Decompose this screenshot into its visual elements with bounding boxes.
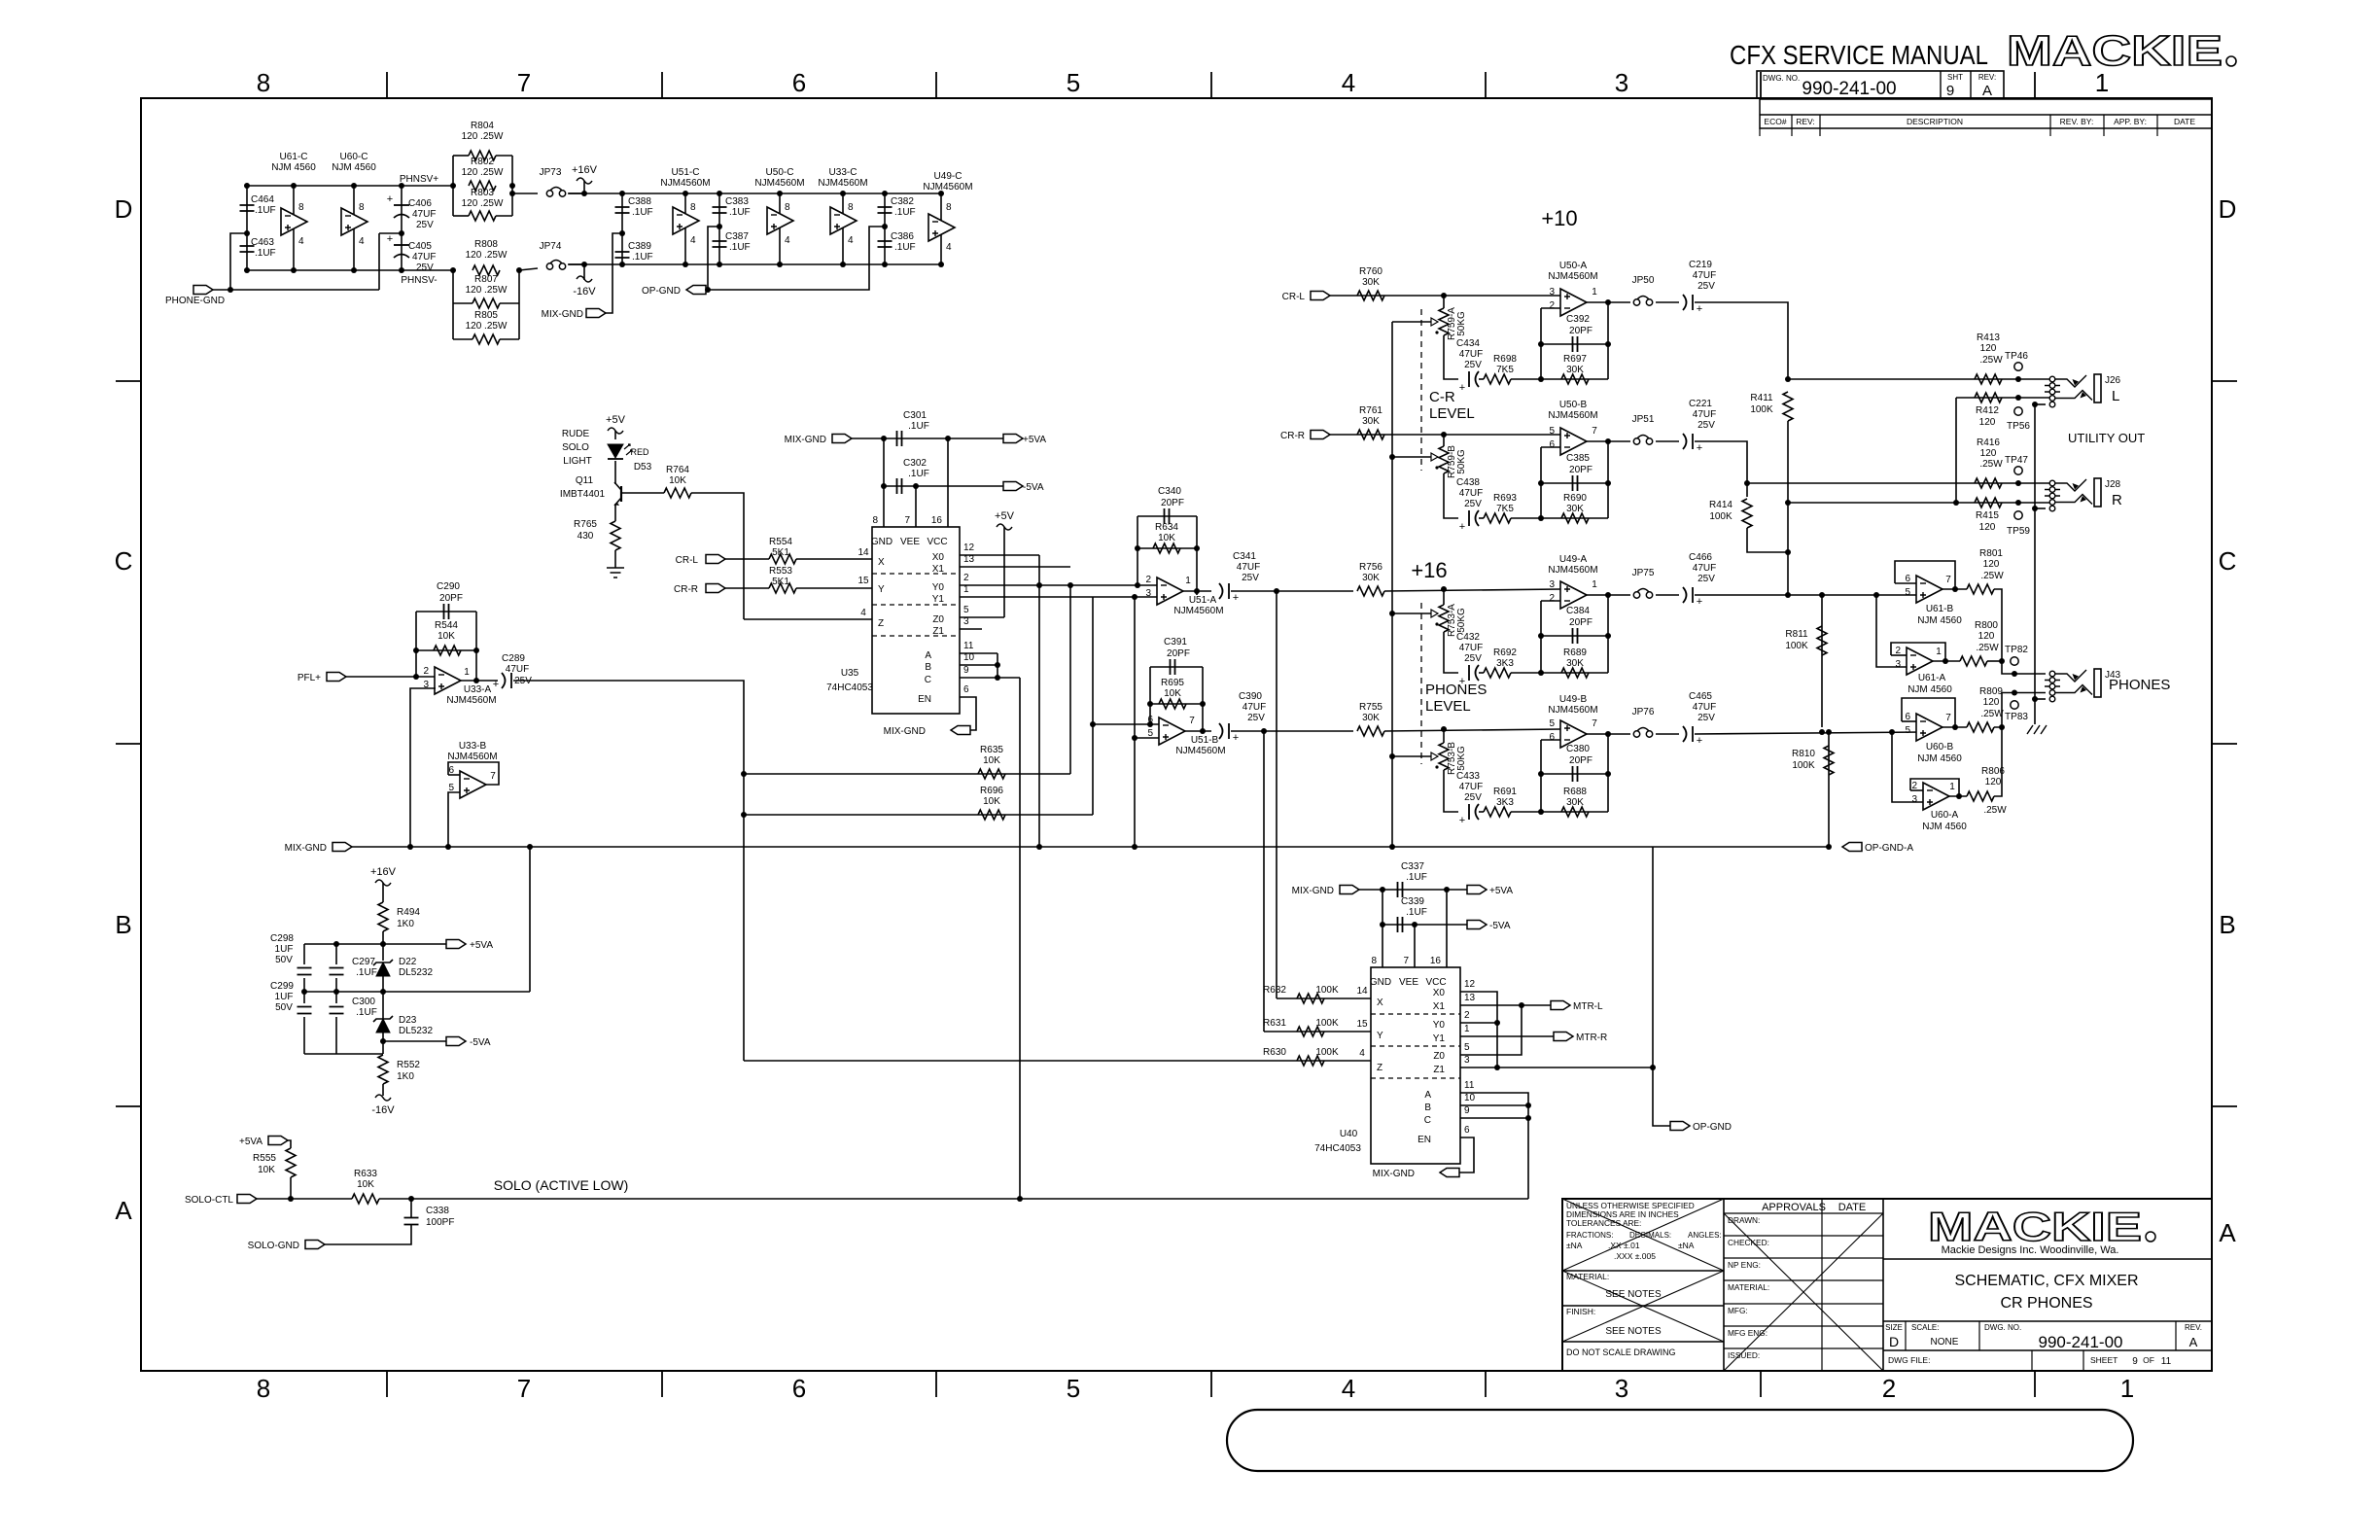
wire R755 to pot [1384,729,1560,731]
svg-text:X1: X1 [1433,1001,1446,1012]
wire R756 to pot [1384,589,1560,591]
resistor R698 [1484,374,1511,384]
junction U50-A out [1605,299,1611,305]
capacitor C463 plates [240,246,255,252]
svg-text:C339: C339 [1401,896,1424,907]
svg-text:8: 8 [946,202,952,213]
svg-text:DRAWN:: DRAWN: [1728,1215,1760,1225]
capacitor C465 [1683,726,1687,742]
wire R698 to rail [1511,378,1541,380]
junction J26 gnd [2032,402,2038,407]
wire C433 to R691 [1479,811,1484,813]
svg-text:5: 5 [1067,1374,1080,1403]
svg-text:25V: 25V [416,220,434,230]
op-amp U49-B [1560,720,1587,748]
svg-text:D: D [2219,194,2237,224]
svg-text:NP ENG:: NP ENG: [1728,1260,1761,1270]
svg-text:47UF: 47UF [1693,702,1716,713]
junction C385 right [1605,480,1611,486]
wire R554 to X [796,558,872,560]
svg-text:X0: X0 [932,552,945,563]
svg-text:R755: R755 [1359,702,1382,713]
svg-text:UTILITY OUT: UTILITY OUT [2068,431,2145,445]
svg-text:7: 7 [1592,718,1597,729]
svg-text:.25W: .25W [1980,571,2004,581]
junction U50-C pin4 [777,262,783,267]
svg-text:100K: 100K [1792,760,1815,771]
svg-text:NJM 4560: NJM 4560 [332,162,376,173]
svg-text:+: + [387,193,393,205]
svg-text:VCC: VCC [927,537,947,547]
svg-text:5: 5 [1464,1042,1470,1053]
svg-text:MATERIAL:: MATERIAL: [1728,1282,1769,1292]
svg-text:30K: 30K [1362,416,1380,427]
capacitor C434 [1468,371,1470,387]
svg-text:120 .25W: 120 .25W [466,250,507,261]
svg-text:MATERIAL:: MATERIAL: [1566,1272,1609,1281]
svg-text:R765: R765 [574,519,597,530]
wire C290 left vertical [415,612,417,677]
junction U49-B out [1605,731,1611,737]
wire U35 A [960,652,997,654]
svg-text:C391: C391 [1164,637,1187,647]
junction U50-C pin8 [777,191,783,196]
svg-text:7: 7 [1403,956,1409,966]
svg-text:R800: R800 [1975,620,1998,631]
svg-text:74HC4053: 74HC4053 [1314,1143,1361,1154]
junction C337 pin16 [1444,887,1450,892]
resistor R801 [1967,584,1994,594]
resistor R413 [1975,374,2002,384]
svg-text:2: 2 [1549,300,1555,311]
svg-text:C340: C340 [1158,486,1181,497]
wire mid to MIX-GND [529,847,531,992]
wire C391 left vert [1149,667,1151,724]
svg-text:SHT: SHT [1947,73,1963,82]
junction C384 left [1538,633,1544,639]
svg-text:7: 7 [517,1374,531,1403]
connector OP-GND bottom flag [1670,1122,1690,1131]
wire U51-A out [1183,590,1211,592]
resistor R765 [611,521,620,550]
junction phones B pot [1441,726,1447,732]
wire PFL+ input [346,676,436,678]
svg-text:3K3: 3K3 [1496,658,1514,669]
wire pot B bottom [1444,473,1458,518]
svg-text:NJM4560M: NJM4560M [447,752,497,762]
svg-text:R554: R554 [769,537,792,547]
svg-text:R688: R688 [1563,787,1587,797]
testpoint TP59 [2014,511,2022,519]
svg-text:PHNSV-: PHNSV- [401,275,437,286]
svg-text:.1UF: .1UF [1406,907,1427,918]
svg-text:DATE: DATE [1838,1202,1867,1213]
svg-text:120 .25W: 120 .25W [466,285,507,296]
svg-text:+: + [1697,735,1702,747]
svg-text:4: 4 [1342,1374,1355,1403]
svg-text:NJM 4560: NJM 4560 [1922,822,1967,832]
svg-text:TP83: TP83 [2005,712,2028,722]
wire J28 sleeve [2035,507,2046,509]
svg-text:6: 6 [1549,439,1555,450]
junction Y0 X0 [1494,1020,1500,1026]
svg-text:3: 3 [1895,659,1901,670]
svg-text:8: 8 [298,202,304,213]
capacitor C392 [1573,336,1578,352]
resistor R806 [1967,791,1994,801]
resistor R411 [1783,392,1793,421]
wire C465 out [1695,732,1923,734]
svg-text:R761: R761 [1359,405,1382,416]
wire U33-B feedback [448,762,499,785]
wire JP75 to C466 [1656,594,1679,596]
junction wiper bus phones A [1389,611,1395,616]
svg-text:+: + [1697,596,1702,608]
svg-text:15: 15 [1356,1019,1368,1030]
svg-text:8: 8 [872,515,878,526]
wire C299 top [303,992,305,1003]
junction U50-B out [1605,438,1611,444]
junction U51-A out [1194,588,1200,594]
svg-text:±NA: ±NA [1566,1241,1583,1250]
wire pot phones A top [1443,589,1445,605]
wire MIX-GND up [606,233,622,313]
IC U40 74HC4053 box [1371,967,1460,1164]
svg-text:+5VA: +5VA [1489,886,1513,896]
junction mid C298 [301,989,307,995]
svg-text:20PF: 20PF [1569,617,1592,628]
svg-text:.1UF: .1UF [255,248,276,259]
op-amp U51-A [1157,577,1183,605]
wire U50-A out vert [1607,302,1609,379]
wire C300 bottom [335,1017,337,1054]
svg-text:C341: C341 [1233,551,1256,562]
svg-text:IMBT4401: IMBT4401 [560,489,606,500]
svg-text:1K0: 1K0 [397,1071,414,1082]
svg-text:R764: R764 [666,465,689,475]
svg-text:25V: 25V [1247,713,1265,723]
svg-text:Y: Y [878,584,885,595]
junction U33-A out [473,678,479,683]
svg-text:R809: R809 [1979,686,2003,697]
svg-text:6: 6 [1147,715,1153,725]
resistor R690 [1561,513,1589,523]
junction C389 bottom [619,262,625,267]
svg-text:J28: J28 [2105,479,2121,490]
svg-text:NJM4560M: NJM4560M [660,178,710,189]
junction TP56 node [2015,395,2021,401]
wire JP74 to rail [569,263,584,265]
wire U40 pin8 stub [1382,890,1383,967]
capacitor C464 [246,186,248,270]
svg-text:30K: 30K [1362,277,1380,288]
wire C466 out [1695,594,1916,596]
junction U51-B out [1200,728,1206,734]
wire C298 top [303,944,305,964]
wire U49-A fb vert [1540,601,1542,673]
svg-text:A: A [2189,1335,2198,1349]
svg-text:8: 8 [848,202,854,213]
junction U33-C pin4 [840,262,846,267]
svg-text:14: 14 [857,547,869,558]
svg-text:A: A [925,650,931,661]
resistor R764 [664,488,691,498]
svg-text:.25W: .25W [1979,459,2003,470]
wire PHONE-GND [213,289,379,291]
op-amp U49-A [1560,581,1587,609]
resistor group R808 R807 R805 [452,270,454,339]
capacitor C387 plates [713,241,727,247]
wire U40 Z1 [1460,1067,1653,1068]
svg-text:R413: R413 [1977,332,2000,343]
wire C385 row [1541,482,1608,484]
junction R808 left [450,267,456,273]
capacitor C432 [1468,665,1470,681]
diode D22 [373,960,393,965]
svg-text:PHONES: PHONES [1425,682,1487,698]
svg-text:47UF: 47UF [506,664,529,675]
wire LED to Q11 [614,461,616,484]
capacitor C341 [1219,583,1223,599]
svg-text:47UF: 47UF [1693,409,1716,420]
svg-text:C438: C438 [1456,477,1480,488]
svg-text:.1UF: .1UF [729,242,751,253]
wire CR-L row [1330,295,1560,297]
svg-text:6: 6 [1549,732,1555,743]
wire U40 Y1 [1460,1035,1554,1037]
svg-text:+: + [1697,442,1702,454]
svg-text:C219: C219 [1689,260,1712,270]
junction U51-A pin2 [1135,582,1140,588]
svg-text:JP51: JP51 [1632,414,1655,425]
junction R688 left [1538,809,1544,815]
svg-text:SHEET: SHEET [2090,1355,2117,1365]
junction C302 left [881,483,887,489]
svg-text:16: 16 [931,515,943,526]
wire R695 row [1150,703,1203,705]
svg-text:B: B [1424,1102,1431,1113]
junction U49-C pin4 [938,262,944,267]
junction -5VA node [380,1038,386,1044]
svg-text:.1UF: .1UF [894,207,916,218]
wire pot B top [1443,435,1445,446]
resistor R760 [1357,291,1384,300]
wire U33-A pin3 from MIX-GND [410,688,436,847]
svg-text:TOLERANCES ARE:: TOLERANCES ARE: [1566,1218,1641,1228]
svg-text:JP74: JP74 [540,241,562,252]
svg-text:11: 11 [963,641,974,651]
wire J43 sleeve [2035,698,2046,700]
junction R415 left [1953,500,1959,506]
wire R697 row [1541,378,1608,380]
svg-text:47UF: 47UF [412,252,436,262]
op-amp U33-C triangle [830,207,857,234]
svg-text:100PF: 100PF [426,1217,454,1228]
svg-text:SIZE: SIZE [1885,1323,1903,1332]
svg-text:SOLO (ACTIVE LOW): SOLO (ACTIVE LOW) [494,1177,628,1193]
wire C341 out [1231,590,1353,592]
svg-text:12: 12 [1464,979,1476,990]
capacitor C388 plates [615,207,630,213]
svg-text:25V: 25V [1697,574,1715,584]
svg-text:R693: R693 [1493,493,1517,504]
capacitor C433 [1468,804,1470,820]
wire SOLO-CTL to R633 [257,1198,352,1200]
wire U40 Y0 [1460,1022,1497,1024]
svg-text:C: C [2219,546,2237,576]
capacitor C298 plates [297,968,312,975]
svg-text:C337: C337 [1401,861,1424,872]
svg-text:C300: C300 [352,997,375,1007]
wire wiper bus [1391,322,1393,847]
svg-text:10K: 10K [1158,533,1175,543]
wire U60-A branch [1892,732,1923,802]
svg-text:.1UF: .1UF [632,207,653,218]
junction R695 right [1200,701,1206,707]
wire U35 Z input [744,618,872,620]
junction R690 left [1538,515,1544,521]
connector +5VA U40 flag [1467,886,1487,894]
wire U50-A fb left [1541,307,1560,309]
svg-text:C302: C302 [903,458,927,469]
svg-text:C387: C387 [725,231,749,242]
svg-text:4: 4 [359,236,365,247]
svg-text:120: 120 [1980,448,1997,459]
junction C405 bottom [399,267,404,273]
svg-text:10K: 10K [357,1179,374,1190]
wire MIX-GND corner down [1652,847,1654,1067]
junction CR-R pot [1441,432,1447,437]
svg-text:Z1: Z1 [932,626,944,637]
svg-text:R696: R696 [980,786,1003,796]
wire R414 down [1747,528,1788,552]
wire U50-A fb vert [1540,308,1542,379]
svg-text:-16V: -16V [371,1104,395,1116]
svg-text:120 .25W: 120 .25W [462,131,504,142]
connector CR-L flag [706,555,725,564]
svg-text:1: 1 [963,584,969,595]
jumper JP75 [1633,592,1639,598]
wire U40 Y input [1264,1031,1371,1032]
resistor R808 [472,265,500,275]
wire C434 to R698 [1479,378,1484,380]
junction x1167 top [1132,594,1137,600]
wire U35 C [960,677,1020,679]
svg-text:25V: 25V [1697,713,1715,723]
svg-text:DESCRIPTION: DESCRIPTION [1907,117,1963,126]
svg-text:JP50: JP50 [1632,275,1655,286]
svg-text:Q11: Q11 [576,475,594,486]
wire pot phones B top [1443,729,1445,743]
wire pot A top [1443,296,1445,308]
connector CR-R flag [706,584,725,593]
resistor R802 [469,181,496,191]
op-amp U33-B triangle [460,771,486,798]
svg-text:990-241-00: 990-241-00 [2039,1333,2123,1351]
svg-text:C: C [1424,1115,1431,1126]
wire C384 row [1541,635,1608,637]
connector MIX-GND U40 EN flag [1440,1169,1459,1177]
svg-text:U60-B: U60-B [1926,742,1954,752]
svg-text:TP59: TP59 [2007,526,2030,537]
svg-text:+5V: +5V [995,510,1015,522]
svg-text:3: 3 [1464,1055,1470,1066]
wire U60-A pin2 stub [1910,789,1923,791]
connector MIX-GND U35 EN flag [951,726,970,735]
svg-text:+: + [1233,732,1239,744]
svg-text:-16V: -16V [573,286,596,297]
svg-text:100K: 100K [1709,511,1732,522]
wire U35 pin7 stub [915,486,917,527]
svg-text:+10: +10 [1541,206,1577,230]
svg-text:50V: 50V [275,1002,293,1013]
svg-text:RUDE: RUDE [562,429,590,439]
svg-text:B: B [115,910,131,939]
junction R634 left [1135,545,1140,551]
svg-text:30K: 30K [1566,365,1584,375]
junction U61-C pin8 [291,183,297,189]
junction U60-C pin4 [351,267,357,273]
wire Q11 base to R764 [621,492,664,494]
wire U49-A out [1587,594,1630,596]
junction R810 bottom [1826,844,1832,850]
junction R811 top [1819,592,1825,598]
wire PFL signal long [513,681,744,1061]
junction R416 node [1744,480,1750,486]
svg-text:CFX SERVICE MANUAL: CFX SERVICE MANUAL [1730,40,1988,70]
svg-text:NJM 4560: NJM 4560 [271,162,316,173]
svg-text:+16: +16 [1411,558,1447,582]
svg-text:REV.: REV. [2185,1323,2202,1332]
wire D22 bottom [382,976,384,992]
svg-text:25V: 25V [1464,360,1482,370]
svg-text:20PF: 20PF [1569,465,1592,475]
svg-text:NJM4560M: NJM4560M [446,695,496,706]
svg-text:REV:: REV: [1796,117,1815,126]
wire U49-B out vert [1607,734,1609,812]
svg-text:C298: C298 [270,933,294,944]
svg-text:120: 120 [1985,777,2002,787]
wire pot A bottom [1444,335,1458,379]
svg-text:C385: C385 [1566,453,1590,464]
junction U61-A branch [1873,592,1879,598]
capacitor C297 plates [330,968,344,975]
svg-text:U50-B: U50-B [1559,400,1588,410]
svg-text:R756: R756 [1359,562,1382,573]
svg-text:8: 8 [257,1374,270,1403]
svg-text:NJM4560M: NJM4560M [1548,705,1597,716]
junction R544 left [413,647,419,653]
testpoint TP46 [2014,363,2022,370]
svg-text:PHONE-GND: PHONE-GND [165,296,225,306]
junction U51-B pin6 [1147,721,1153,727]
capacitor C383 [718,193,720,264]
capacitor C383 plates [713,207,727,213]
op-amp U61-C triangle [281,208,307,235]
svg-text:.25W: .25W [1976,643,1999,653]
capacitor C384 [1573,628,1578,644]
svg-text:12: 12 [963,542,975,553]
junction C464 top [244,183,250,189]
junction PHONE-GND [227,287,233,293]
svg-text:120 .25W: 120 .25W [466,321,507,332]
junction wiper bus rail [1389,844,1395,850]
svg-text:4: 4 [690,235,696,246]
svg-text:U49-C: U49-C [934,171,962,182]
connector CR-R main flag [1311,431,1330,439]
svg-text:25V: 25V [1464,499,1482,509]
svg-text:OP-GND: OP-GND [642,286,681,297]
